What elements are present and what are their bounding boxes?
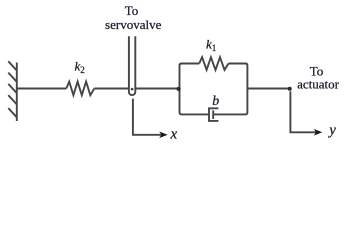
svg-text:b: b xyxy=(212,94,219,109)
svg-text:y: y xyxy=(327,123,336,139)
svg-text:x: x xyxy=(170,127,178,143)
svg-text:actuator: actuator xyxy=(297,76,340,91)
svg-text:k1: k1 xyxy=(206,37,216,54)
svg-text:servovalve: servovalve xyxy=(105,17,162,32)
svg-text:k2: k2 xyxy=(75,59,85,76)
svg-text:To: To xyxy=(125,3,139,18)
